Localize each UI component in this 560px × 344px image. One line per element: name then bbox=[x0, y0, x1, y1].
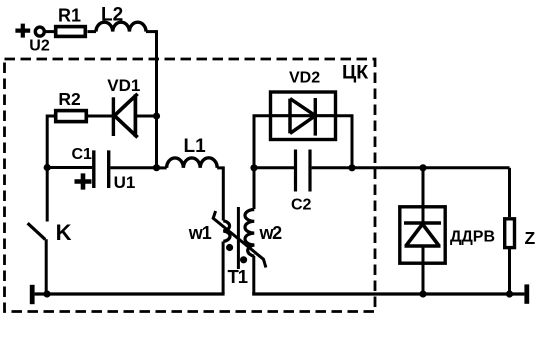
diode VD2 triangle bbox=[290, 99, 315, 134]
wire C1 right plate to node bbox=[110, 166, 156, 169]
junction VD1 node bbox=[153, 112, 160, 119]
wire C1 node down to switch K bbox=[46, 168, 49, 222]
polarity dot w2 bbox=[240, 256, 247, 263]
svg-text:VD1: VD1 bbox=[107, 76, 140, 95]
transformer T1 winding w2 bbox=[245, 210, 254, 257]
wire switch to rail bbox=[45, 239, 48, 294]
junction switch-rail bbox=[43, 290, 50, 297]
svg-text:ДДРВ: ДДРВ bbox=[450, 229, 495, 246]
wire C1 node up to R2 left bbox=[47, 116, 56, 168]
dashed box ЦК boundary bbox=[5, 59, 376, 312]
junction Z-rail bbox=[506, 290, 513, 297]
wire corner down to Z bbox=[508, 168, 511, 217]
wire terminal to R1 bbox=[45, 30, 54, 33]
inductor L1 bbox=[167, 158, 218, 168]
junction C2 right node bbox=[348, 164, 355, 171]
resistor R2 bbox=[56, 111, 87, 122]
resistor R1 bbox=[56, 27, 86, 37]
junction ДДРВ top node bbox=[419, 164, 426, 171]
svg-text:T1: T1 bbox=[228, 266, 248, 287]
junction C1/L1 node bbox=[153, 164, 160, 171]
svg-text:U1: U1 bbox=[114, 173, 136, 192]
capacitor C1 plates bbox=[94, 150, 109, 188]
diode VD2 box bbox=[271, 92, 336, 140]
wire C1 node to C1 left plate bbox=[47, 166, 92, 169]
svg-text:K: K bbox=[56, 220, 72, 245]
svg-text:VD2: VD2 bbox=[289, 70, 320, 87]
polarity dot w1 bbox=[226, 244, 233, 251]
wire VD1 to node bbox=[135, 115, 156, 118]
terminal U2 plus sign bbox=[15, 24, 30, 38]
junction ДДРВ-rail bbox=[419, 290, 426, 297]
diode VD1 cathode bar bbox=[112, 97, 115, 136]
diode ДДРВ triangle bbox=[405, 224, 441, 246]
wire R1 to L2 bbox=[88, 30, 97, 33]
transformer T1 winding w1 bbox=[223, 221, 230, 242]
junction C2 left node bbox=[250, 164, 257, 171]
diode VD2 line through bbox=[271, 114, 336, 117]
transformer T1 core bbox=[237, 207, 240, 269]
transformer T1 adjustment stroke bbox=[213, 211, 266, 268]
svg-text:L2: L2 bbox=[101, 5, 123, 26]
svg-text:C1: C1 bbox=[72, 146, 93, 163]
svg-text:Z: Z bbox=[525, 228, 536, 248]
wire VD2 right to C2 node bbox=[336, 116, 353, 168]
wire VD2 left to C2 node bbox=[254, 116, 271, 168]
diode ДДРВ box bbox=[400, 207, 445, 263]
resistor Z bbox=[505, 219, 515, 248]
diode VD2 cathode bar bbox=[314, 98, 317, 136]
capacitor C2 plates bbox=[296, 150, 311, 192]
wire C2 right bbox=[312, 166, 352, 169]
wire Z to rail bbox=[508, 249, 511, 294]
wire w1 bottom to rail bbox=[222, 242, 225, 295]
svg-text:R1: R1 bbox=[58, 6, 81, 26]
switch K blade bbox=[28, 223, 46, 239]
wire node down to ДДРВ bbox=[422, 168, 425, 223]
terminal U2 circle bbox=[35, 27, 44, 36]
wire L2 to corner node bbox=[146, 30, 157, 33]
svg-text:ЦК: ЦК bbox=[342, 62, 368, 84]
wire C2 right node to Z corner bbox=[352, 166, 510, 169]
wire C2 left bbox=[254, 166, 294, 169]
wire C2 left node down to w2 bbox=[253, 168, 256, 209]
svg-text:L1: L1 bbox=[184, 136, 207, 157]
bottom rail right segment bbox=[252, 292, 524, 295]
svg-text:C2: C2 bbox=[291, 196, 312, 213]
diode ДДРВ cathode bar bbox=[404, 221, 441, 225]
svg-text:U2: U2 bbox=[29, 37, 50, 54]
wire node to L1 bbox=[157, 166, 167, 169]
wire vertical L2 down to VD1 node bbox=[155, 30, 158, 116]
terminal bar bottom left bbox=[30, 285, 35, 304]
svg-text:w1: w1 bbox=[188, 223, 212, 243]
terminal bar bottom right bbox=[524, 284, 529, 303]
svg-text:R2: R2 bbox=[58, 89, 81, 109]
svg-text:w2: w2 bbox=[259, 223, 283, 243]
inductor L2 bbox=[96, 22, 146, 31]
wire VD1 node down to C1 node bbox=[155, 116, 158, 168]
wire ДДРВ to rail bbox=[422, 246, 425, 294]
wire R2 to VD1 bbox=[86, 115, 112, 118]
polarity plus of C1 bbox=[75, 173, 92, 189]
junction C1 node left bbox=[44, 164, 51, 171]
wire w2 bottom to rail bbox=[252, 256, 255, 294]
diode VD1 triangle bbox=[114, 94, 137, 138]
wire L1 to transformer w1 bbox=[217, 168, 223, 221]
bottom rail left segment bbox=[35, 292, 225, 295]
